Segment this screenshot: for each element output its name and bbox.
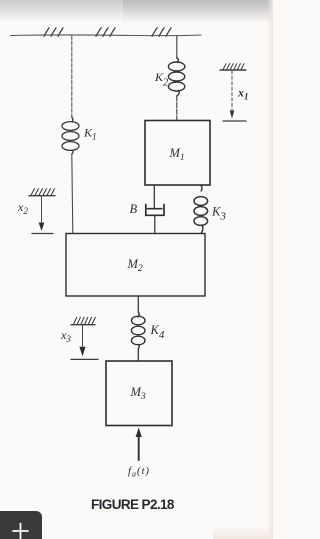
x2 reference line (41, 196, 43, 222)
svg-text:K4: K4 (150, 323, 165, 341)
x1 dashed reference line (231, 71, 233, 109)
ceiling hatch group 3 (152, 28, 171, 37)
x2 bottom line (32, 233, 53, 235)
svg-text:x3: x3 (60, 328, 71, 344)
spring K1 (62, 117, 79, 154)
svg-text:M2: M2 (127, 257, 143, 274)
ceiling line (11, 34, 202, 37)
mass M1 (145, 121, 210, 186)
wire ceiling to spring K2 (176, 36, 178, 59)
zoom button plus icon (13, 524, 28, 539)
x2 reference support with hatching (29, 189, 55, 196)
spring K4 (131, 312, 145, 349)
svg-text:K2: K2 (154, 70, 169, 89)
svg-text:B: B (130, 202, 138, 216)
x2 arrow (39, 223, 45, 232)
damper B piston plate (148, 208, 162, 210)
damper B cylinder cup (146, 205, 164, 216)
svg-text:x2: x2 (17, 200, 28, 216)
x3 bottom line (71, 358, 98, 360)
svg-text:FIGURE P2.18: FIGURE P2.18 (91, 497, 175, 512)
wire mass M1 to damper piston (153, 185, 155, 208)
zoom button overlay (0, 511, 42, 539)
svg-text:M1: M1 (169, 146, 185, 163)
wire mass M2 to spring K4 (137, 296, 139, 312)
wire damper to mass M2 (154, 216, 156, 234)
spring K2 (168, 58, 184, 97)
ceiling hatch group 1 (44, 28, 63, 37)
x3 arrow (79, 347, 85, 356)
svg-text:x1: x1 (237, 86, 249, 102)
spring K3 (194, 197, 208, 233)
wire ceiling to spring K1 (71, 36, 73, 118)
wire spring K4 to mass M3 (137, 349, 139, 362)
ceiling hatch group 2 (96, 28, 115, 37)
force arrow fa(t) (138, 434, 140, 460)
wire spring K2 to mass M1 (176, 96, 178, 120)
wire mass M1 to spring K3 (201, 185, 202, 191)
x1 reference support with hatching (220, 64, 246, 70)
svg-text:M3: M3 (130, 385, 146, 402)
svg-text:K1: K1 (83, 126, 97, 143)
mass M2 (66, 234, 205, 297)
svg-text:K3: K3 (211, 205, 226, 223)
x3 reference support with hatching (71, 317, 95, 324)
x1 bottom line (223, 120, 246, 122)
wire spring K1 to mass M2 (72, 154, 73, 233)
svg-text:fa(t): fa(t) (128, 465, 150, 479)
x1 arrow (231, 110, 233, 115)
mass M3 (106, 361, 172, 426)
x3 reference line (82, 325, 84, 347)
